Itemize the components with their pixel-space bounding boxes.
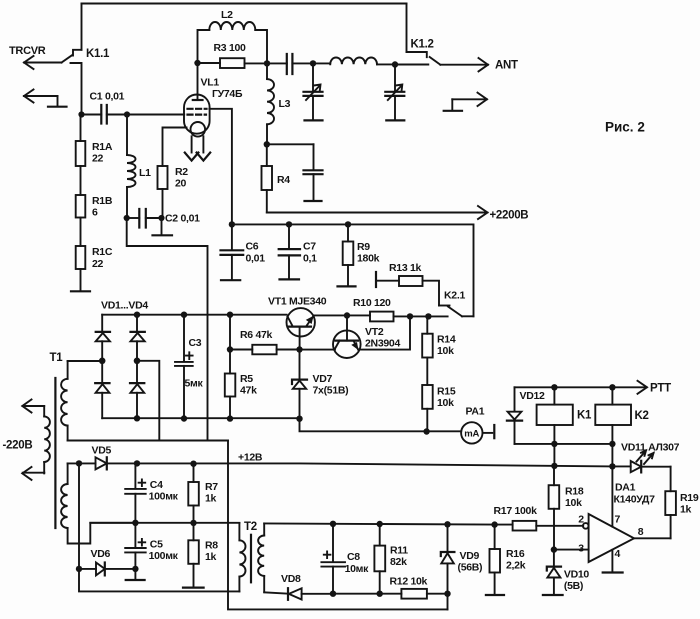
svg-text:VD11 АЛ307: VD11 АЛ307: [621, 442, 680, 454]
resistor R17: [513, 521, 584, 531]
wire relay bottom bus: [515, 441, 616, 447]
svg-text:3: 3: [578, 543, 584, 555]
svg-text:1k: 1k: [205, 493, 217, 505]
diode VD4: [130, 361, 144, 419]
svg-text:(56В): (56В): [458, 562, 483, 574]
svg-text:2: 2: [578, 514, 584, 526]
svg-text:TRCVR: TRCVR: [9, 45, 46, 57]
diode VD6: [76, 563, 136, 576]
resistor R1C: [76, 246, 86, 291]
relay contact K1.2: [407, 4, 441, 65]
ground below R2/C2: [153, 218, 173, 235]
wire grid1 to C1 node: [127, 114, 184, 116]
svg-text:C4: C4: [150, 479, 163, 491]
inductor L1: [127, 115, 136, 219]
wire cathode return from L1/C2 node down and right: [127, 218, 208, 441]
wire bottom left rail: [79, 569, 239, 592]
transformer T2 primary: [239, 523, 245, 591]
capacitor C2: [124, 209, 165, 228]
svg-text:L3: L3: [279, 98, 291, 110]
svg-text:1k: 1k: [205, 551, 217, 563]
svg-text:6: 6: [92, 207, 98, 219]
svg-text:R15: R15: [437, 386, 456, 398]
svg-text:4: 4: [615, 548, 621, 560]
capacitor screen bypass fixed: [267, 144, 323, 201]
wire doubler negative bus: [102, 415, 302, 422]
svg-text:47k: 47k: [240, 385, 257, 397]
svg-text:C2 0,01: C2 0,01: [165, 213, 200, 225]
transformer T2 secondary: [258, 523, 264, 592]
svg-text:L1: L1: [139, 167, 151, 179]
wire +2200V arrow: [267, 206, 488, 219]
svg-text:R1B: R1B: [92, 195, 113, 207]
svg-text:VD5: VD5: [92, 445, 112, 457]
svg-text:180k: 180k: [357, 253, 380, 265]
inductor L3: [264, 63, 274, 147]
wire antenna stub arrow right: [444, 93, 487, 111]
capacitor coupling to tank: [267, 54, 316, 74]
svg-text:10мк: 10мк: [345, 563, 370, 575]
relay coil K2: [595, 387, 631, 466]
op-amp DA1: [551, 466, 671, 572]
svg-text:VL1: VL1: [201, 77, 220, 89]
wire cathode return down to bottom rail: [228, 441, 448, 610]
svg-text:20: 20: [175, 178, 187, 190]
svg-text:10k: 10k: [565, 497, 582, 509]
svg-text:C7: C7: [303, 241, 316, 253]
resistor R1A: [76, 115, 86, 196]
wire top rail K1.1 to K1.2: [82, 3, 407, 5]
transistor VT2: [300, 316, 411, 359]
svg-text:K1: K1: [577, 410, 592, 422]
diode VD1: [96, 315, 110, 361]
svg-text:K1.1: K1.1: [86, 48, 110, 60]
capacitor C8: [321, 524, 345, 597]
svg-text:R18: R18: [565, 486, 584, 498]
svg-text:R10 120: R10 120: [353, 297, 391, 309]
svg-text:R2: R2: [175, 166, 188, 178]
svg-text:mA: mA: [464, 429, 479, 440]
wire VD6 branch down: [78, 463, 80, 569]
svg-text:R11: R11: [390, 545, 408, 557]
diode VD2: [131, 315, 145, 361]
svg-text:5мк: 5мк: [185, 378, 204, 390]
resistor R8: [183, 523, 204, 588]
transformer T1 secondary upper: [61, 361, 68, 441]
wire +12 bias to T2 primary: [90, 522, 239, 524]
resistor R12: [333, 589, 451, 599]
svg-text:2N3904: 2N3904: [365, 338, 400, 350]
transformer T2 core: [250, 535, 252, 583]
wire PTT arrow: [515, 381, 648, 394]
node TRCVR arrow: [24, 56, 62, 69]
svg-text:7x(51В): 7x(51В): [313, 385, 349, 397]
svg-text:VD12: VD12: [520, 390, 546, 402]
resistor R14: [422, 316, 433, 385]
zener diode VD10: [543, 550, 563, 595]
svg-text:R3 100: R3 100: [214, 42, 247, 54]
wire screen grid to +2200 bus: [209, 109, 232, 225]
svg-text:R1A: R1A: [92, 141, 113, 153]
svg-text:0,01: 0,01: [246, 253, 266, 265]
svg-text:R7: R7: [205, 481, 218, 493]
wire -220V arrow upper: [22, 400, 44, 413]
svg-text:(5В): (5В): [564, 580, 583, 592]
capacitor C6: [221, 224, 244, 280]
resistor R2: [158, 128, 187, 219]
svg-text:0,1: 0,1: [303, 253, 317, 265]
capacitor C1: [78, 105, 130, 124]
capacitor C5: [125, 520, 146, 573]
svg-text:100мк: 100мк: [149, 550, 179, 562]
diode VD8: [264, 588, 333, 600]
node doubler mid left: [99, 358, 106, 365]
svg-text:PTT: PTT: [650, 383, 671, 395]
resistor R16: [486, 525, 504, 595]
svg-text:10k: 10k: [437, 345, 454, 357]
svg-text:VT1 MJE340: VT1 MJE340: [268, 296, 327, 308]
svg-text:R12 10k: R12 10k: [390, 576, 428, 588]
svg-text:R5: R5: [240, 373, 253, 385]
zener diode VD7: [292, 350, 307, 419]
inductor L2: [198, 22, 268, 63]
transformer T1 secondary lower: [61, 463, 135, 543]
wire receive stub arrow left: [24, 90, 67, 107]
resistor R5: [225, 315, 236, 419]
relay coil K1: [537, 387, 573, 466]
svg-text:ГУ74Б: ГУ74Б: [212, 88, 243, 100]
resistor R19: [665, 467, 676, 539]
wire bias bus to PA1: [300, 419, 462, 435]
node doubler mid right: [134, 358, 141, 365]
svg-text:VD10: VD10: [564, 569, 590, 581]
svg-text:Рис. 2: Рис. 2: [605, 120, 645, 135]
zener diode VD9: [441, 524, 455, 609]
svg-text:+12В: +12В: [238, 452, 263, 464]
capacitor C3: [175, 315, 193, 419]
resistor R10: [370, 312, 448, 322]
svg-text:C5: C5: [150, 539, 163, 551]
wire -220V arrow lower: [22, 467, 44, 480]
svg-text:8: 8: [638, 526, 644, 538]
resistor R6: [227, 345, 303, 355]
svg-text:C3: C3: [189, 337, 202, 349]
svg-text:1k: 1k: [680, 504, 692, 516]
ground below C5: [126, 569, 145, 580]
wire T1 secondary top to doubler: [68, 360, 103, 362]
svg-text:T1: T1: [50, 352, 64, 364]
svg-text:R16: R16: [506, 548, 525, 560]
svg-text:C8: C8: [347, 551, 360, 563]
resistor R1B: [76, 195, 86, 246]
wire bus 2200V filter to K2.1: [229, 221, 474, 316]
svg-text:7: 7: [615, 514, 621, 526]
transformer T1 primary: [44, 406, 50, 473]
svg-text:-220В: -220В: [3, 440, 33, 452]
svg-text:К140УД7: К140УД7: [614, 494, 656, 506]
resistor R3: [198, 58, 271, 68]
resistor R11: [374, 524, 385, 597]
svg-text:VD7: VD7: [313, 373, 333, 385]
resistor R15: [422, 385, 433, 431]
svg-text:T2: T2: [244, 521, 257, 533]
capacitor C4: [125, 463, 146, 522]
svg-text:VT2: VT2: [365, 326, 384, 338]
diode VD12: [507, 387, 522, 444]
resistor R9: [338, 224, 356, 286]
svg-text:VD9: VD9: [460, 550, 480, 562]
wire ANT arrow: [440, 58, 488, 71]
svg-text:R14: R14: [437, 334, 456, 346]
svg-text:R13 1k: R13 1k: [389, 262, 422, 274]
diode VD3: [95, 361, 109, 418]
wire +12V rail: [107, 460, 616, 469]
capacitor C7: [279, 224, 300, 279]
diode VD5: [68, 457, 107, 469]
svg-text:2,2k: 2,2k: [506, 560, 526, 572]
svg-text:VD1...VD4: VD1...VD4: [101, 300, 148, 312]
svg-text:R9: R9: [357, 241, 370, 253]
svg-text:VD8: VD8: [281, 573, 301, 585]
svg-text:10k: 10k: [437, 397, 454, 409]
node anode L2/R3 left: [194, 60, 200, 66]
svg-text:PA1: PA1: [466, 406, 485, 418]
meter PA1: [461, 422, 494, 443]
svg-text:R19: R19: [680, 492, 699, 504]
svg-text:R17 100k: R17 100k: [494, 505, 538, 517]
LED VD11: [612, 451, 670, 473]
svg-text:22: 22: [92, 258, 104, 270]
wire doubler return: [68, 440, 228, 442]
transistor VT1: [287, 308, 315, 349]
svg-text:82k: 82k: [390, 556, 407, 568]
svg-text:+2200В: +2200В: [490, 210, 529, 222]
svg-text:VD6: VD6: [91, 548, 111, 560]
vacuum tube VL1: [184, 63, 210, 161]
svg-text:22: 22: [92, 153, 104, 165]
wire VT1 collector to R10: [314, 312, 370, 318]
svg-text:C6: C6: [246, 241, 259, 253]
wire doubler positive bus: [102, 312, 286, 318]
resistor R13: [376, 272, 439, 306]
variable capacitor tank left: [304, 63, 323, 120]
inductor L4 tank coil: [313, 57, 428, 67]
svg-text:L2: L2: [221, 9, 233, 21]
svg-text:R1C: R1C: [92, 246, 113, 258]
svg-text:ANT: ANT: [495, 60, 518, 72]
wire doubler right to cathode line: [137, 361, 159, 441]
svg-text:R4: R4: [277, 174, 290, 186]
relay contact K1.1: [62, 4, 82, 115]
resistor R4: [262, 144, 273, 212]
svg-text:DA1: DA1: [615, 482, 636, 494]
resistor R7: [188, 464, 199, 526]
svg-text:K2: K2: [635, 410, 649, 422]
svg-text:R6 47k: R6 47k: [240, 329, 273, 341]
transformer T1 core: [54, 378, 56, 528]
ground below R1C: [71, 290, 90, 292]
relay contact K2.1: [439, 306, 474, 317]
variable capacitor tank right: [385, 65, 404, 121]
svg-text:K2.1: K2.1: [444, 290, 465, 302]
wire T2 secondary top to op-amp input network: [264, 521, 512, 528]
resistor R18: [549, 466, 560, 550]
svg-text:100мк: 100мк: [149, 491, 179, 503]
svg-text:R8: R8: [205, 540, 218, 552]
svg-text:C1 0,01: C1 0,01: [90, 91, 125, 103]
svg-text:K1.2: K1.2: [411, 39, 434, 51]
